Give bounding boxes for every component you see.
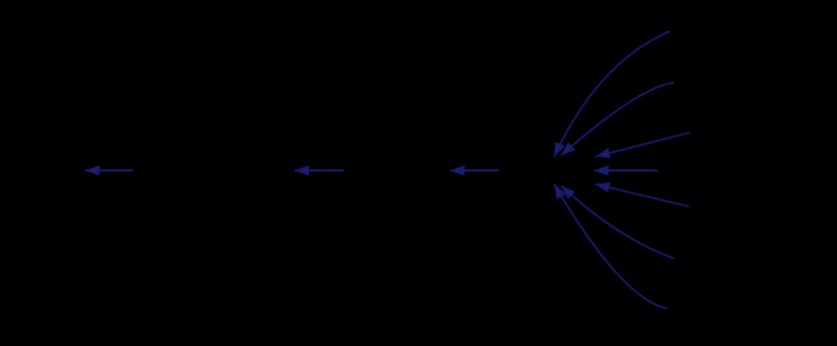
wire arrow F3 (upper straight diagonal) — [596, 133, 691, 157]
wire arrow F5 (lower straight diagonal) — [595, 184, 689, 207]
wire arrow F4 (middle horizontal short) — [594, 170, 658, 172]
wire arrow F6 (second-from-bottom curved) — [561, 186, 674, 259]
wire arrow A2 (second horizontal) — [295, 170, 344, 172]
wire arrow A3 (third horizontal) — [450, 170, 499, 172]
wire arrow F7 (bottom curved) — [554, 184, 668, 309]
wire arrow F1 (top curved) — [554, 31, 670, 157]
wire arrow F2 (second curved) — [561, 83, 674, 156]
wire arrow A1 (leftmost horizontal) — [85, 170, 133, 172]
